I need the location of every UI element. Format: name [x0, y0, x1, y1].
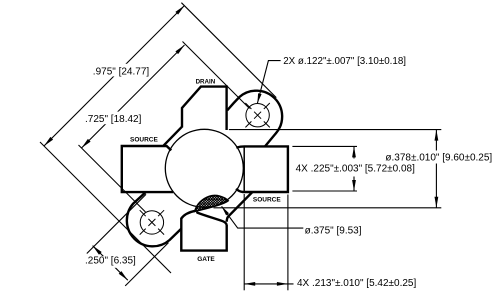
dim 4X .213 horizontal	[244, 283, 293, 285]
top tangent line	[229, 129, 441, 131]
dim 4X .225 ext top	[292, 145, 357, 147]
svg-text:GATE: GATE	[197, 256, 215, 263]
leader 2X hole dia	[257, 61, 280, 104]
dim line .250 lower arrow	[115, 267, 128, 280]
extension line .725 SW	[79, 145, 146, 212]
svg-text:SOURCE: SOURCE	[253, 197, 281, 204]
svg-text:4X .225"±.003" [5.72±0.08]: 4X .225"±.003" [5.72±0.08]	[296, 164, 415, 175]
gate lead (bottom)	[181, 211, 226, 251]
flange NE ear outline	[227, 91, 282, 147]
svg-text:2X ø.122"±.007" [3.10±0.18]: 2X ø.122"±.007" [3.10±0.18]	[283, 56, 406, 67]
gate scallop curve	[197, 213, 226, 226]
dim 4X .225 vertical	[353, 146, 355, 191]
east lead left edge at circle	[243, 148, 245, 192]
extension line .725 NE	[183, 42, 250, 109]
dim line .725	[82, 45, 185, 148]
svg-text:ø.378±.010" [9.60±0.25]: ø.378±.010" [9.60±0.25]	[385, 152, 492, 163]
source lead (west)	[122, 146, 173, 192]
flange edge between drain and west source lead	[164, 127, 182, 146]
svg-text:ø.375" [9.53]: ø.375" [9.53]	[305, 225, 362, 236]
dim 4X .213 ext right	[287, 195, 289, 291]
bottom tangent line	[214, 207, 442, 209]
ceramic cap circle	[165, 129, 243, 207]
SW mounting hole	[140, 211, 163, 234]
svg-text:.725" [18.42]: .725" [18.42]	[85, 114, 142, 125]
dim dia .378 vertical	[435, 130, 437, 208]
flange edge between east lead and gate	[227, 192, 253, 222]
leader dia .375	[222, 206, 304, 228]
svg-text:.250" [6.35]: .250" [6.35]	[85, 255, 136, 266]
dim 4X .225 ext bottom	[292, 190, 357, 192]
svg-text:4X .213"±.010" [5.42±0.25]: 4X .213"±.010" [5.42±0.25]	[297, 278, 416, 289]
NE mounting hole	[246, 104, 269, 127]
source lead (east)	[236, 146, 288, 192]
extension line .975 SW	[40, 142, 171, 273]
dim line .975	[44, 6, 185, 147]
svg-text:DRAIN: DRAIN	[196, 79, 216, 86]
flange SW ear outline	[127, 192, 181, 246]
svg-text:.975" [24.77]: .975" [24.77]	[93, 67, 150, 78]
extension line .975 NE	[181, 3, 276, 98]
svg-text:SOURCE: SOURCE	[130, 137, 158, 144]
dim line .250 upper arrow	[93, 246, 106, 259]
extension line .250 lower	[125, 243, 168, 286]
extension line .250 upper	[87, 194, 146, 253]
drain lead (top) with chamfer	[182, 87, 227, 130]
dim 4X .213 ext left	[243, 194, 245, 290]
